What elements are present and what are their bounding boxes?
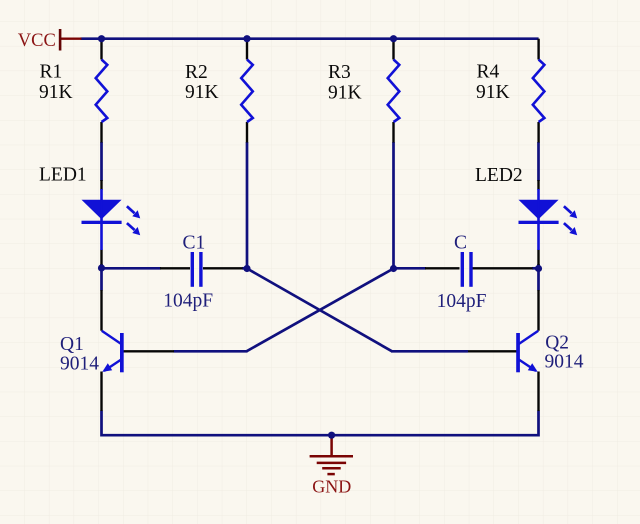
svg-text:C1: C1 xyxy=(183,232,206,253)
svg-text:91K: 91K xyxy=(39,82,73,103)
svg-text:LED1: LED1 xyxy=(39,164,87,185)
svg-text:104pF: 104pF xyxy=(437,291,487,312)
svg-text:VCC: VCC xyxy=(18,31,56,51)
svg-text:LED2: LED2 xyxy=(475,165,523,186)
svg-text:Q2: Q2 xyxy=(545,332,569,353)
svg-text:R1: R1 xyxy=(40,62,63,83)
svg-text:C: C xyxy=(454,233,467,254)
svg-text:R3: R3 xyxy=(328,62,351,83)
svg-text:GND: GND xyxy=(312,477,351,497)
svg-text:Q1: Q1 xyxy=(60,334,84,355)
svg-text:104pF: 104pF xyxy=(163,291,213,312)
svg-text:9014: 9014 xyxy=(545,352,584,373)
svg-text:91K: 91K xyxy=(476,82,510,103)
svg-text:91K: 91K xyxy=(185,82,219,103)
svg-text:91K: 91K xyxy=(328,82,362,103)
svg-text:R4: R4 xyxy=(477,62,500,83)
svg-text:R2: R2 xyxy=(185,62,208,83)
svg-text:9014: 9014 xyxy=(60,354,99,375)
